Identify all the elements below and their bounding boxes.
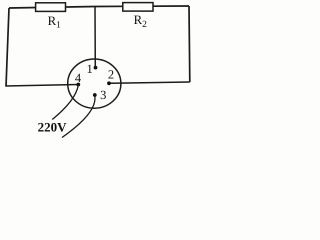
svg-text:3: 3 [100, 88, 106, 102]
pin 3 label [100, 88, 106, 102]
svg-text:4: 4 [75, 71, 82, 85]
resistor R2 [123, 3, 153, 30]
pin 4 label [75, 71, 82, 85]
svg-text:R1: R1 [48, 14, 62, 31]
pin 1 label [86, 62, 92, 76]
wire left border [6, 8, 9, 87]
pin 1 [94, 66, 98, 70]
wire bottom-right to pin 2 [109, 82, 190, 83]
wire top-left (frame top, R1 branch) [9, 6, 189, 8]
connector socket (4-pin) [68, 59, 121, 108]
wire middle vertical to pin 1 [94, 7, 96, 68]
svg-text:2: 2 [108, 67, 114, 81]
svg-text:220V: 220V [38, 119, 68, 134]
pin 4 [76, 83, 80, 87]
pin 2 label [108, 67, 114, 81]
wire 220V lead from pin 3 [62, 96, 95, 138]
resistor R1 [36, 3, 66, 31]
svg-text:1: 1 [86, 62, 92, 76]
pin 3 [93, 93, 97, 97]
label 220V [38, 119, 68, 134]
wire bottom-left to pin 4 [6, 85, 79, 87]
svg-text:R2: R2 [134, 13, 148, 30]
wire right border [188, 6, 191, 82]
pin 2 [107, 81, 111, 85]
wire 220V lead from pin 4 [52, 85, 78, 120]
